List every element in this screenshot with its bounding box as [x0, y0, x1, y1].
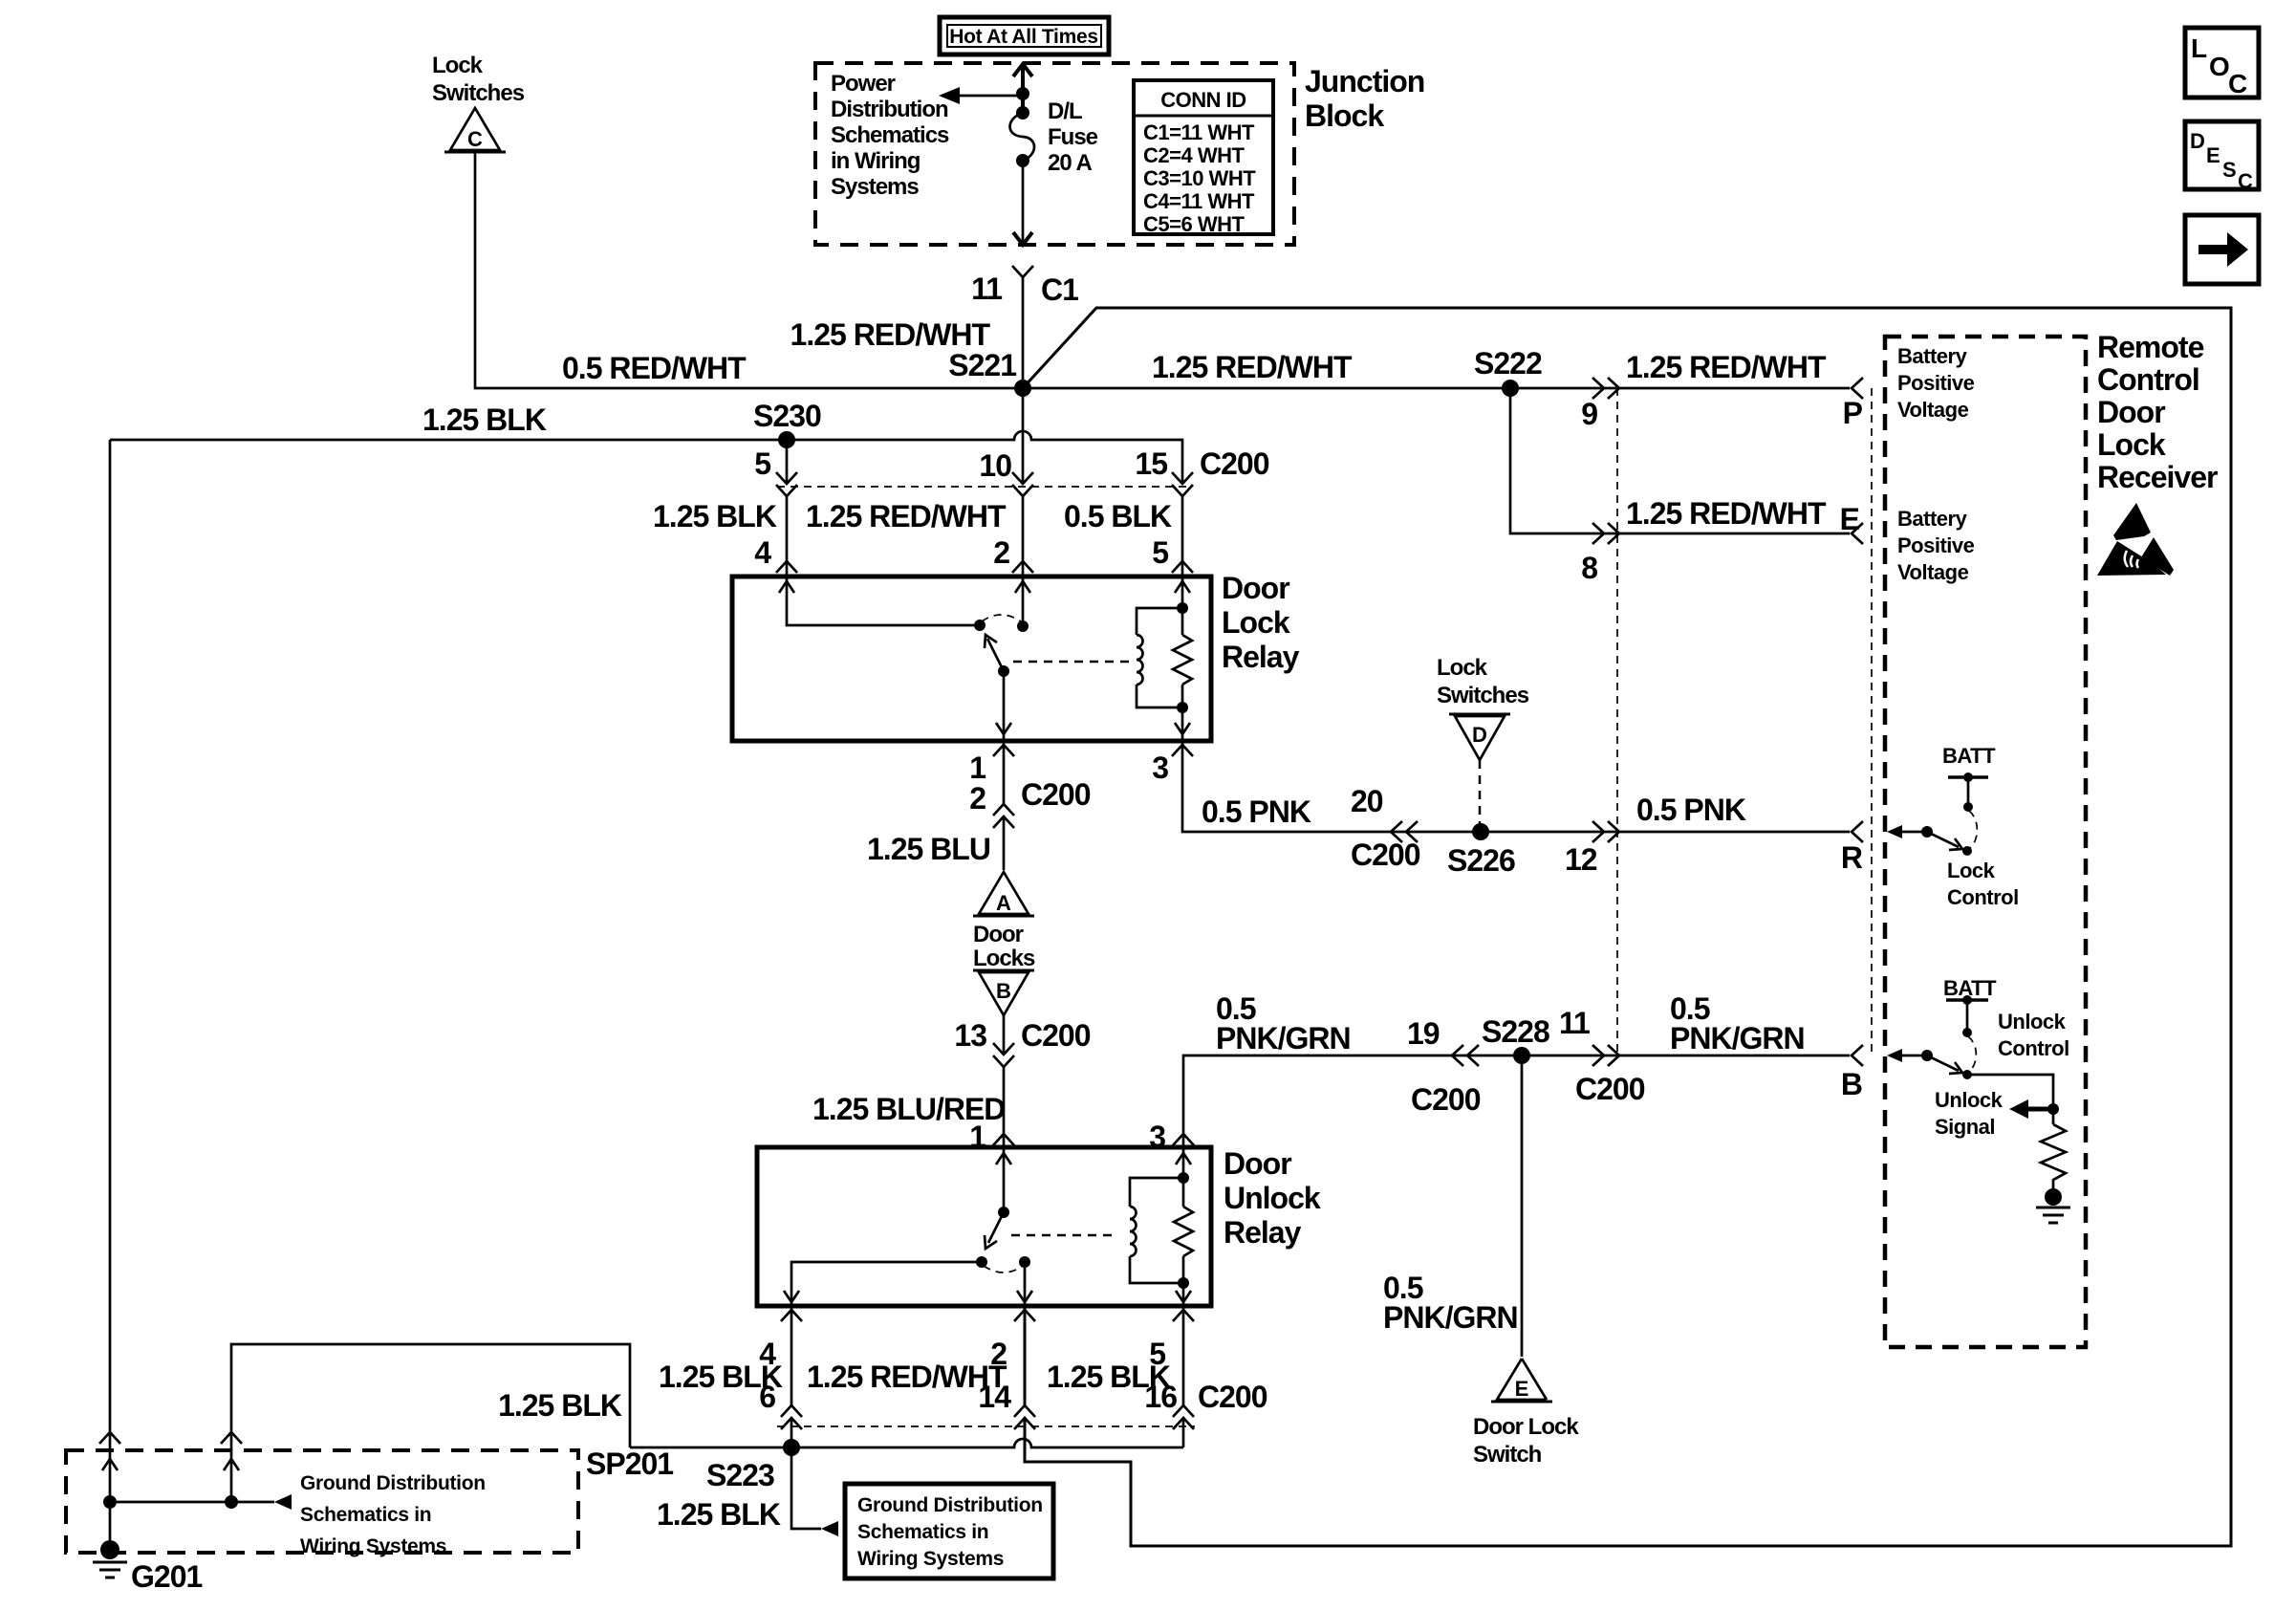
svg-text:C200: C200 [1198, 1380, 1267, 1414]
svg-text:Unlock: Unlock [1998, 1010, 2067, 1033]
splice S222 [1502, 380, 1519, 397]
svg-text:Schematics in: Schematics in [857, 1521, 988, 1543]
svg-text:16: 16 [1144, 1380, 1177, 1414]
svg-text:Switches: Switches [1437, 683, 1529, 708]
svg-text:Signal: Signal [1935, 1115, 1995, 1139]
node lock relay pole [998, 665, 1009, 677]
relay K2 Door Unlock Relay box [757, 1147, 1211, 1306]
arrow to power distribution [939, 87, 960, 104]
dashed throw arc lock relay [982, 615, 1021, 621]
junction block dashed box [815, 63, 1294, 245]
svg-text:Relay: Relay [1222, 640, 1300, 674]
pin forks below lock relay [993, 745, 1193, 756]
wire power loop: diagonal from S221, top edge, right edge, bottom to pin 14 [1023, 308, 2231, 1546]
svg-text:S226: S226 [1447, 843, 1515, 878]
pin 16 arrow and fork [1173, 1405, 1194, 1429]
svg-text:19: 19 [1407, 1016, 1440, 1051]
svg-text:D: D [2190, 129, 2205, 153]
node lock relay fixed contact B [1017, 620, 1029, 632]
svg-text:B: B [1841, 1067, 1862, 1101]
connector C1 fork [1012, 266, 1033, 277]
dashed actuator link lock relay [1013, 661, 1132, 664]
svg-text:1.25 BLK: 1.25 BLK [498, 1388, 622, 1423]
pin forks above unlock relay [993, 1134, 1194, 1145]
svg-text:2: 2 [969, 781, 986, 816]
svg-text:Control: Control [1998, 1036, 2069, 1060]
node unlock switch pole [1921, 1050, 1933, 1061]
relay K1 Door Lock Relay box [732, 577, 1211, 741]
dashed wire D to S226 [1479, 760, 1482, 828]
ground distribution reference box (bottom middle) [845, 1484, 1053, 1578]
svg-text:Locks: Locks [973, 946, 1035, 971]
wire pin 16 down to bus [1182, 1306, 1185, 1447]
wire left ground drop [109, 440, 112, 1502]
resistor lock relay [1173, 635, 1192, 685]
splice S230 [778, 431, 795, 448]
svg-text:PNK/GRN: PNK/GRN [1383, 1300, 1518, 1335]
svg-text:Schematics: Schematics [831, 122, 949, 148]
connector C200 upper dashed line [777, 486, 1192, 488]
coil unlock relay [1130, 1178, 1183, 1283]
connector C200 chevrons (19) [1452, 1045, 1479, 1066]
splice S221 [1014, 380, 1031, 397]
svg-text:C200: C200 [1200, 446, 1269, 481]
svg-text:1.25 RED/WHT: 1.25 RED/WHT [1152, 350, 1353, 384]
label Remote Control Door Lock Receiver [2097, 330, 2218, 494]
node SP201 junction right [225, 1495, 238, 1509]
svg-text:Relay: Relay [1224, 1215, 1302, 1250]
pin fork P at receiver [1852, 378, 1863, 399]
svg-text:S: S [2222, 158, 2237, 182]
svg-text:A: A [996, 891, 1011, 915]
off-page triangle A door locks [973, 872, 1034, 916]
svg-text:Remote: Remote [2097, 330, 2204, 364]
svg-text:L: L [2191, 33, 2207, 63]
ESD sensitivity symbol [2097, 503, 2174, 576]
connector C200 chevrons (20) [1391, 821, 1418, 842]
unlock signal arrow [2009, 1099, 2053, 1119]
svg-text:14: 14 [978, 1380, 1011, 1414]
wire row P: S221 to S222 to receiver pin P [1023, 387, 1850, 390]
connector dashed line receiver [1871, 388, 1873, 1055]
svg-text:CONN ID: CONN ID [1160, 88, 1245, 112]
svg-text:1: 1 [969, 751, 986, 785]
LOC reference box [2185, 28, 2259, 98]
label 0.5 PNK/GRN (left) [1216, 991, 1351, 1055]
pin forks above lock relay [776, 561, 1193, 573]
svg-text:C1: C1 [1041, 272, 1078, 307]
node fuse top tap [1016, 87, 1029, 100]
wire SP201 internal bus [110, 1501, 274, 1504]
node unlock coil top [1178, 1172, 1189, 1184]
svg-text:0.5 PNK: 0.5 PNK [1202, 794, 1311, 829]
svg-text:Door: Door [1224, 1146, 1291, 1181]
label Battery Positive Voltage (P) [1897, 344, 1975, 422]
arrow down at junction box bottom [1013, 232, 1032, 245]
svg-text:Voltage: Voltage [1897, 398, 1969, 422]
wire fuse to C1 [1022, 161, 1025, 388]
label Door Lock Switch [1473, 1414, 1579, 1468]
svg-text:Unlock: Unlock [1935, 1088, 2004, 1112]
arrow to ground distribution reference (S223 tail) [821, 1521, 838, 1536]
svg-text:1.25 BLK: 1.25 BLK [653, 499, 777, 533]
svg-text:Power: Power [831, 71, 896, 97]
node unlock coil bottom [1178, 1277, 1189, 1289]
svg-text:Battery: Battery [1897, 344, 1968, 368]
svg-text:C200: C200 [1575, 1072, 1645, 1106]
splice pack SP201 dashed box [66, 1450, 578, 1553]
fuse D/L 20A element [1010, 106, 1035, 167]
wire B to unlock relay pin 1 [1003, 1015, 1006, 1147]
svg-text:1.25 BLU: 1.25 BLU [867, 832, 990, 866]
Hot At All Times box [940, 17, 1109, 54]
svg-text:0.5 RED/WHT: 0.5 RED/WHT [562, 351, 747, 385]
svg-text:1.25 RED/WHT: 1.25 RED/WHT [791, 317, 991, 352]
svg-text:Ground Distribution: Ground Distribution [857, 1494, 1043, 1516]
svg-text:13: 13 [954, 1018, 986, 1053]
svg-text:Switches: Switches [432, 80, 525, 106]
svg-text:1.25 BLK: 1.25 BLK [657, 1497, 781, 1532]
label 0.5 PNK/GRN (S228 drop) [1383, 1271, 1518, 1335]
wire fuse feed [1021, 67, 1025, 111]
off-page connector triangle C [444, 108, 506, 152]
svg-text:Control: Control [1947, 885, 2019, 909]
svg-text:20: 20 [1351, 784, 1383, 818]
CONN ID table [1134, 80, 1273, 236]
svg-text:S222: S222 [1474, 346, 1542, 381]
ground G201 [93, 1540, 127, 1577]
wire lock relay coil to pin 3 [1175, 685, 1190, 741]
svg-text:C: C [467, 127, 483, 151]
svg-text:4: 4 [754, 535, 771, 570]
splice S226 [1472, 823, 1489, 840]
pin fork E at receiver [1852, 523, 1863, 544]
svg-text:Lock: Lock [1947, 859, 1996, 882]
svg-text:Unlock: Unlock [1224, 1181, 1321, 1215]
svg-text:Positive: Positive [1897, 371, 1975, 395]
svg-text:Distribution: Distribution [831, 97, 948, 122]
pin fork R at receiver [1852, 821, 1863, 842]
wire C to S221 row [475, 152, 1023, 388]
label Ground Distribution Schematics in Wiring Systems (SP201) [300, 1472, 486, 1557]
receiver U1 Remote Control Door Lock Receiver dashed box [1885, 337, 2086, 1347]
pin 10 arrow and fork [1012, 472, 1033, 496]
svg-text:in Wiring: in Wiring [831, 148, 921, 174]
wire S222 drop to row E [1510, 388, 1850, 533]
svg-text:C: C [2228, 69, 2247, 98]
svg-text:E: E [1840, 502, 1860, 536]
wire S221 to relay pin 2 [1022, 388, 1025, 577]
svg-text:0.5 PNK: 0.5 PNK [1636, 793, 1746, 827]
svg-text:S221: S221 [948, 348, 1016, 382]
svg-text:D/L: D/L [1048, 98, 1082, 124]
dashed actuator link unlock relay [1011, 1234, 1113, 1237]
svg-text:B: B [996, 979, 1011, 1003]
wire lock relay pin 4 internal [779, 577, 974, 625]
BATT contact (unlock) [1946, 995, 1988, 1037]
label Power Distribution Schematics in Wiring Systems [831, 71, 949, 200]
splice S228 [1513, 1047, 1530, 1064]
svg-text:5: 5 [754, 446, 770, 481]
wire to power distribution reference [958, 95, 1023, 98]
svg-text:SP201: SP201 [586, 1447, 673, 1481]
wire 1.25 BLK ground bus S223 (hop over pin14 wire) [231, 1344, 1183, 1502]
node lock switch contact [1962, 846, 1972, 856]
pin forks above SP201 [99, 1432, 242, 1444]
off-page triangle E door lock switch [1491, 1359, 1552, 1402]
svg-text:Ground Distribution: Ground Distribution [300, 1472, 486, 1494]
wire S230 to relay pin 4 [786, 440, 789, 577]
dashed throw arc unlock relay [984, 1266, 1023, 1273]
wire lock relay pin 5 internal [1175, 577, 1190, 635]
svg-text:C4=11 WHT: C4=11 WHT [1143, 189, 1255, 213]
svg-text:PNK/GRN: PNK/GRN [1216, 1021, 1351, 1055]
wire unlock relay pin 1 internal [996, 1147, 1011, 1212]
svg-text:C200: C200 [1021, 1018, 1091, 1053]
svg-text:1.25 BLK: 1.25 BLK [422, 402, 547, 437]
connector chevrons row R (12) [1592, 821, 1619, 842]
node unlock relay fixed contact B [1019, 1256, 1030, 1268]
splice S223 [783, 1439, 800, 1456]
resistor unlock signal [2041, 1124, 2066, 1189]
svg-text:Door Lock: Door Lock [1473, 1414, 1579, 1440]
pin 5 arrow and fork [776, 472, 797, 496]
BATT contact (lock) [1948, 772, 1988, 812]
svg-text:8: 8 [1581, 551, 1597, 585]
switch arm lock control [1927, 832, 1962, 850]
svg-text:D: D [1472, 723, 1487, 747]
svg-text:Switch: Switch [1473, 1442, 1542, 1468]
wire pin 6 down to S223 [791, 1306, 821, 1529]
svg-text:0.5 BLK: 0.5 BLK [1064, 499, 1172, 533]
pin fork B at receiver [1852, 1045, 1863, 1066]
svg-text:BATT: BATT [1942, 744, 1996, 768]
svg-text:Positive: Positive [1897, 533, 1975, 557]
wire unlock coil to pin 5 [1176, 1256, 1191, 1306]
svg-text:Voltage: Voltage [1897, 560, 1969, 584]
switch arm unlock relay [985, 1212, 1004, 1249]
pin 6 arrow and fork [781, 1405, 802, 1429]
svg-text:Door: Door [973, 922, 1024, 947]
arrows into SP201 [102, 1459, 239, 1470]
svg-text:Fuse: Fuse [1048, 124, 1098, 150]
svg-text:C200: C200 [1351, 838, 1420, 872]
label Door Lock Relay [1222, 571, 1300, 674]
node coil bottom [1177, 702, 1188, 713]
svg-text:1.25 RED/WHT: 1.25 RED/WHT [806, 499, 1007, 533]
wire 1.25 BLK bus S230 row (with hop over main vertical) [110, 431, 1182, 577]
svg-text:15: 15 [1135, 446, 1167, 481]
svg-text:Lock: Lock [432, 53, 484, 78]
coil lock relay [1137, 608, 1182, 707]
lock control switch: wire from pin R [1887, 825, 1927, 838]
svg-text:S228: S228 [1482, 1014, 1549, 1049]
off-page triangle B door locks [973, 970, 1034, 1015]
node coil top [1177, 602, 1188, 614]
svg-text:12: 12 [1565, 842, 1597, 877]
dashed throw arc lock control [1969, 811, 1977, 848]
svg-text:Door: Door [2097, 395, 2165, 429]
label Lock Switches (D) [1437, 655, 1529, 708]
svg-text:1.25 RED/WHT: 1.25 RED/WHT [1626, 496, 1827, 531]
label Door Unlock Relay [1224, 1146, 1321, 1250]
svg-text:C2=4 WHT: C2=4 WHT [1143, 143, 1245, 167]
label Battery Positive Voltage (E) [1897, 507, 1975, 584]
label Unlock Control [1998, 1010, 2069, 1060]
svg-text:Door: Door [1222, 571, 1289, 605]
svg-text:S223: S223 [706, 1458, 774, 1492]
label 0.5 PNK/GRN (right) [1670, 991, 1805, 1055]
svg-text:Wiring Systems: Wiring Systems [857, 1548, 1004, 1570]
svg-text:20 A: 20 A [1048, 150, 1092, 176]
svg-text:Block: Block [1305, 98, 1384, 133]
switch arm lock relay [985, 635, 1004, 671]
svg-text:11: 11 [1559, 1006, 1590, 1040]
off-page triangle D lock switches [1449, 714, 1510, 760]
svg-text:3: 3 [1152, 751, 1168, 785]
label Junction Block [1305, 64, 1424, 133]
arrow to ground distribution reference (SP201) [274, 1494, 292, 1510]
wire unlock contact B to pin 2 [1017, 1268, 1032, 1306]
svg-text:5: 5 [1152, 535, 1168, 570]
svg-text:C: C [2238, 169, 2253, 193]
connector chevrons row E [1592, 523, 1619, 544]
DESC reference box [2185, 121, 2259, 193]
pin 15 arrow and fork [1172, 472, 1193, 496]
svg-text:PNK/GRN: PNK/GRN [1670, 1021, 1805, 1055]
svg-text:Junction: Junction [1305, 64, 1424, 98]
arrow up at junction box top [1013, 64, 1032, 76]
wire lock relay pole to pin 1 [996, 671, 1011, 741]
connector C200 inline (1/2) [993, 804, 1014, 828]
connector dashed line C200 (right) [1616, 388, 1618, 1055]
svg-text:2: 2 [993, 535, 1009, 570]
svg-text:6: 6 [759, 1380, 775, 1414]
node unlock relay fixed contact A [976, 1256, 987, 1268]
node lock switch pole [1921, 826, 1933, 838]
connector chevrons row P [1592, 378, 1619, 399]
node unlock relay pole [998, 1207, 1009, 1218]
wire unlock contact to pin 4 [784, 1262, 982, 1306]
svg-text:E: E [2206, 143, 2220, 167]
node SP201 junction left [103, 1495, 117, 1509]
node lock relay fixed contact A [974, 620, 986, 631]
connector C200 lower dashed line [777, 1425, 1195, 1427]
svg-text:11: 11 [971, 272, 1002, 306]
resistor unlock relay [1174, 1207, 1193, 1256]
label Unlock Signal [1935, 1088, 2004, 1139]
svg-text:G201: G201 [131, 1559, 202, 1594]
svg-text:Lock: Lock [1222, 605, 1290, 640]
pin forks below unlock relay [781, 1310, 1194, 1321]
dashed throw arc unlock control [1968, 1036, 1976, 1072]
svg-text:R: R [1841, 840, 1863, 875]
svg-text:10: 10 [979, 448, 1011, 483]
wire row B: unlock relay pin 3 to receiver pin B [1183, 1055, 1850, 1147]
wire to G201 [109, 1502, 112, 1550]
svg-text:Control: Control [2097, 362, 2199, 397]
node unlock switch contact [1962, 1070, 1972, 1079]
wire S228 drop to door lock switch E [1521, 1055, 1524, 1357]
svg-text:E: E [1515, 1377, 1529, 1401]
svg-text:O: O [2209, 52, 2229, 81]
label Lock Control [1947, 859, 2019, 909]
label Door Locks [973, 922, 1035, 971]
connector C200 inline (13) [993, 1043, 1014, 1067]
wire row R: lock relay pin 3 to receiver pin R [1182, 741, 1850, 832]
wire lock relay pin1 to door locks A [1003, 741, 1006, 870]
svg-text:C200: C200 [1021, 777, 1091, 812]
pin 14 arrow and fork [1014, 1405, 1035, 1429]
svg-text:Battery: Battery [1897, 507, 1968, 531]
label D/L Fuse 20 A [1048, 98, 1098, 176]
wire lock relay pin 2 internal [1015, 577, 1030, 620]
svg-text:C3=10 WHT: C3=10 WHT [1143, 166, 1256, 190]
svg-text:9: 9 [1581, 397, 1597, 431]
svg-text:1.25 RED/WHT: 1.25 RED/WHT [1626, 350, 1827, 384]
wire unlock relay pin 3 internal [1176, 1147, 1191, 1207]
ground (receiver internal) [2036, 1188, 2070, 1223]
svg-text:Receiver: Receiver [2097, 460, 2218, 494]
switch arm unlock control [1927, 1055, 1962, 1074]
svg-text:Wiring Systems: Wiring Systems [300, 1535, 446, 1557]
svg-text:Lock: Lock [2097, 427, 2166, 462]
svg-text:C200: C200 [1411, 1082, 1481, 1117]
unlock control switch: wire from pin B [1887, 1049, 1927, 1062]
wire unlock contact to resistor [1967, 1075, 2053, 1124]
svg-text:P: P [1843, 396, 1863, 430]
node unlock signal tap [2047, 1103, 2059, 1115]
connector chevrons row B (11) [1592, 1045, 1619, 1066]
svg-text:C5=6 WHT: C5=6 WHT [1143, 212, 1245, 236]
svg-text:Lock: Lock [1437, 655, 1488, 681]
svg-text:S230: S230 [753, 399, 821, 433]
svg-text:Systems: Systems [831, 174, 919, 200]
svg-text:C1=11 WHT: C1=11 WHT [1143, 120, 1255, 144]
svg-text:Hot At All Times: Hot At All Times [949, 26, 1097, 48]
arrow reference box [2185, 215, 2259, 284]
svg-text:Schematics in: Schematics in [300, 1504, 431, 1526]
